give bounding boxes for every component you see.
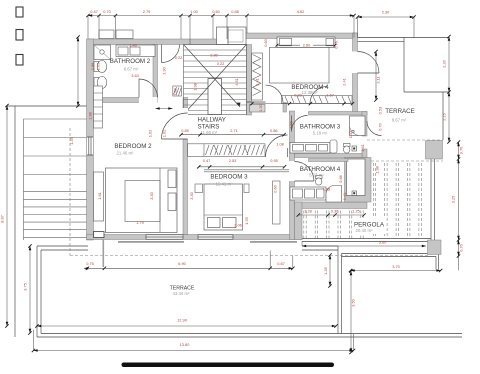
svg-text:BATHROOM 3: BATHROOM 3 <box>300 124 341 131</box>
label pergola halo <box>352 218 386 234</box>
lower terrace outer border <box>37 246 462 337</box>
svg-text:1.61: 1.61 <box>360 144 365 152</box>
svg-text:1.98: 1.98 <box>193 83 198 91</box>
dimension chain overhang 6.90 <box>84 251 295 271</box>
svg-text:6.67 m²: 6.67 m² <box>124 67 139 72</box>
dimension bedroom2 door width <box>156 107 173 110</box>
dashed roof overhang west <box>69 128 71 256</box>
wardrobe strip east of stairs <box>252 53 263 100</box>
svg-text:0.95: 0.95 <box>270 158 278 163</box>
wall bathroom2 south <box>94 98 158 103</box>
terrace NE step outline <box>358 38 450 141</box>
svg-text:1.08: 1.08 <box>323 187 331 192</box>
svg-text:1.99: 1.99 <box>90 63 95 71</box>
bathroom4 shower <box>326 186 342 203</box>
dashed roof overhang south <box>70 255 430 257</box>
lower terrace east border <box>302 246 342 334</box>
svg-text:0.88: 0.88 <box>338 175 343 183</box>
bedroom4 bed body <box>270 47 330 83</box>
svg-text:0.60: 0.60 <box>263 38 268 46</box>
svg-text:1.28: 1.28 <box>304 209 312 214</box>
svg-text:1.90: 1.90 <box>162 66 167 74</box>
svg-text:3.30: 3.30 <box>149 191 154 199</box>
dimension chain 3.60 <box>302 240 426 247</box>
svg-text:2.41: 2.41 <box>255 78 260 86</box>
svg-text:0.75: 0.75 <box>86 261 94 266</box>
svg-text:0.86: 0.86 <box>270 128 278 133</box>
door arc bedroom4 closet <box>310 87 327 104</box>
svg-text:1.02: 1.02 <box>148 130 153 138</box>
svg-text:0.70: 0.70 <box>103 9 111 14</box>
dimension arrowheads <box>34 349 38 352</box>
dimension chain corridor row2 <box>197 158 286 169</box>
legend rect 3 <box>16 55 23 66</box>
door bedroom2 <box>162 108 189 139</box>
bathroom4 spot <box>352 191 357 196</box>
svg-text:3.30: 3.30 <box>189 191 194 199</box>
dimension chain 1.35 <box>323 253 332 287</box>
bathroom3 spot <box>352 146 357 151</box>
window sill 2 <box>250 241 297 242</box>
svg-text:8.67 m²: 8.67 m² <box>392 118 407 123</box>
wall top bedroom4 <box>237 33 358 39</box>
wall bedroom2 east upper <box>183 98 188 109</box>
svg-text:15.41 m²: 15.41 m² <box>216 182 234 187</box>
dimension chain left 3.75 <box>23 244 32 334</box>
bathroom4 toilet <box>316 176 323 186</box>
left hatched lower-roof terrace <box>24 119 89 240</box>
planter boxes above bathroom 2 <box>99 30 133 39</box>
bathroom3 toilet <box>344 144 351 154</box>
pier at bedroom4 door jamb <box>283 103 287 113</box>
site line west <box>14 106 16 337</box>
svg-text:TERRACE: TERRACE <box>385 108 415 115</box>
svg-text:1.50: 1.50 <box>289 120 294 128</box>
wall step at x237 <box>237 33 242 45</box>
dimension left wall <box>76 35 79 107</box>
dimension chain bed3 top row <box>250 93 354 106</box>
svg-text:1.08: 1.08 <box>276 142 284 147</box>
svg-text:2.20: 2.20 <box>442 59 447 67</box>
svg-text:2.53: 2.53 <box>229 158 237 163</box>
svg-text:3.60: 3.60 <box>379 240 387 245</box>
wall bedroom4 south / bathroom3 north (right part) <box>309 112 368 116</box>
wall bathroom2 east <box>153 45 158 103</box>
svg-text:0.22: 0.22 <box>175 55 183 60</box>
bathroom2 basin counter <box>116 45 155 57</box>
stairs central landing <box>208 79 222 115</box>
svg-text:BEDROOM 2: BEDROOM 2 <box>114 143 152 150</box>
svg-text:0.60: 0.60 <box>273 184 278 192</box>
duct shaft white inset <box>347 159 366 196</box>
window south 2 <box>198 235 233 239</box>
svg-text:2.30: 2.30 <box>382 10 390 15</box>
svg-text:0.67: 0.67 <box>277 261 285 266</box>
wall bathroom4 south <box>295 202 368 209</box>
pergola slats south zone <box>304 211 363 239</box>
svg-text:1.30: 1.30 <box>258 103 263 111</box>
svg-text:1.79: 1.79 <box>136 220 144 225</box>
svg-text:4.51: 4.51 <box>234 78 239 86</box>
svg-text:0.22: 0.22 <box>217 61 225 66</box>
hallway cabinet <box>250 105 266 113</box>
bathroom3 shower <box>350 116 366 136</box>
svg-text:0.70: 0.70 <box>459 146 464 154</box>
svg-text:2.11: 2.11 <box>376 76 381 83</box>
svg-text:0.47: 0.47 <box>90 9 98 14</box>
pergola floor south edge <box>302 239 431 242</box>
wall corner inset SW <box>94 232 105 238</box>
wall stairwell east <box>247 45 252 116</box>
pillar A <box>426 141 443 160</box>
extension lines 13.80 <box>33 330 35 351</box>
svg-text:2.71: 2.71 <box>230 128 238 133</box>
wall bathroom4 east / duct mass <box>345 158 372 203</box>
svg-text:6.90: 6.90 <box>178 261 186 266</box>
svg-text:1.00: 1.00 <box>190 9 198 14</box>
bedroom3 north partition <box>204 170 290 172</box>
bedroom3 east wardrobe <box>273 181 281 224</box>
svg-text:1.02: 1.02 <box>162 130 167 138</box>
bedroom4 bed headboard <box>277 37 335 47</box>
bedroom3 door <box>266 135 288 157</box>
svg-text:1.88: 1.88 <box>173 88 178 96</box>
svg-text:BEDROOM 3: BEDROOM 3 <box>210 174 248 181</box>
pergola slats east zone <box>373 163 421 238</box>
svg-text:4.62: 4.62 <box>297 9 305 14</box>
svg-text:20.40 m²: 20.40 m² <box>356 228 374 233</box>
svg-text:2.80: 2.80 <box>210 53 218 58</box>
svg-text:8.87: 8.87 <box>0 215 5 223</box>
window sill 1 <box>118 241 184 242</box>
door terrace from bedroom4 <box>352 52 379 74</box>
bedroom4 low wardrobe row <box>282 96 353 104</box>
wall east bathrooms lower <box>362 149 367 158</box>
svg-text:43.34 m²: 43.34 m² <box>173 291 191 296</box>
bathroom4 vanity row <box>290 187 326 200</box>
svg-text:2.79: 2.79 <box>143 9 151 14</box>
svg-text:0.30: 0.30 <box>331 209 339 214</box>
bedroom2 bed <box>106 168 178 233</box>
svg-text:3.25: 3.25 <box>451 196 456 204</box>
svg-text:0.76: 0.76 <box>334 41 339 49</box>
svg-text:1.35: 1.35 <box>69 137 74 145</box>
window south 1 <box>146 235 183 239</box>
svg-text:3.70: 3.70 <box>392 264 400 269</box>
svg-text:1.05: 1.05 <box>96 63 101 71</box>
bathroom2 bidet <box>94 77 107 89</box>
svg-text:2.15: 2.15 <box>442 113 447 121</box>
svg-text:0.47: 0.47 <box>203 158 211 163</box>
svg-text:0.70: 0.70 <box>378 122 383 130</box>
dashed pergola north boundary <box>371 160 443 162</box>
legend rect 2 <box>16 30 23 41</box>
svg-text:0.53: 0.53 <box>378 107 383 115</box>
dimension chain 2.11 <box>374 50 380 102</box>
svg-text:12.38m²: 12.38m² <box>302 90 318 95</box>
svg-text:11.66 m²: 11.66 m² <box>201 130 218 135</box>
door top corridor <box>162 45 180 63</box>
site line north-west horizontal <box>7 105 88 107</box>
door terrace from bathroom3 <box>367 121 382 136</box>
svg-text:1.40: 1.40 <box>129 42 137 47</box>
dimension chain top 2.30 <box>356 10 416 38</box>
svg-text:1.41: 1.41 <box>342 193 347 201</box>
svg-text:1.43: 1.43 <box>348 131 353 139</box>
hallway wardrobe <box>188 144 266 157</box>
svg-text:3.63: 3.63 <box>131 73 139 78</box>
dimension chain hallway row <box>179 128 285 136</box>
wall spur extension SW <box>102 240 104 268</box>
svg-text:5.18 m²: 5.18 m² <box>313 131 328 136</box>
dashed terrace-pergola boundary <box>367 139 443 141</box>
svg-text:3.75: 3.75 <box>23 283 28 291</box>
dimension chain 3.70 <box>349 264 443 272</box>
bedroom4 south partition line <box>247 101 266 103</box>
bathroom3 vanity row <box>290 140 337 153</box>
dimension chain 3.50 <box>349 269 355 354</box>
svg-text:13.80: 13.80 <box>180 342 191 347</box>
chimney shaft <box>217 27 247 45</box>
door bathroom4 <box>289 161 314 181</box>
wall top main <box>88 39 237 45</box>
window west wall <box>87 137 93 155</box>
dimension chain right 3.25 <box>451 140 464 270</box>
dimension chain pergola row <box>297 209 366 217</box>
svg-text:0.60: 0.60 <box>212 9 220 14</box>
bedroom2 wardrobe west <box>94 86 103 128</box>
wall between bathroom3 and bathroom4 <box>295 154 363 158</box>
bathroom2 toilet <box>94 61 107 73</box>
svg-text:1.25: 1.25 <box>352 209 360 214</box>
svg-text:1.55: 1.55 <box>244 217 249 225</box>
svg-text:0.85: 0.85 <box>181 128 189 133</box>
radiator corridor <box>173 86 182 96</box>
wall east bathrooms upper <box>362 112 367 137</box>
pergola east border <box>431 159 435 240</box>
svg-text:21.46 m²: 21.46 m² <box>117 151 135 156</box>
svg-text:BATHROOM 2: BATHROOM 2 <box>110 58 151 65</box>
wall south main <box>87 235 303 240</box>
svg-text:1.35: 1.35 <box>323 267 328 275</box>
door bedroom4 <box>266 85 284 103</box>
wall west of bathrooms <box>290 111 295 240</box>
svg-text:1.67: 1.67 <box>326 93 334 98</box>
dim label 2.60 ticks <box>276 44 337 47</box>
svg-text:0.83: 0.83 <box>294 93 302 98</box>
bathroom2 shower <box>94 45 111 60</box>
dimension chain 12.90 <box>35 318 337 328</box>
step edge below pergola <box>342 254 439 270</box>
stairs direction diagonals <box>184 45 247 115</box>
door bathroom3 <box>292 116 308 132</box>
bedroom2 dresser west <box>94 172 104 221</box>
svg-text:2.41: 2.41 <box>342 78 347 86</box>
dimension chain top row1 <box>86 9 355 45</box>
wall bedroom2 east lower <box>183 139 188 235</box>
door bathroom2 <box>139 79 158 103</box>
dimension chain right 2.20 2.15 <box>442 35 451 144</box>
bedroom3 bed <box>195 184 249 230</box>
svg-text:2.60: 2.60 <box>303 42 311 47</box>
partition bathroom4 north <box>309 159 349 162</box>
dimension chain 13.80 <box>32 342 355 352</box>
scale bar <box>122 363 335 368</box>
svg-text:0.70: 0.70 <box>459 243 464 251</box>
svg-text:HALLWAY: HALLWAY <box>198 117 226 124</box>
svg-text:3.50: 3.50 <box>351 298 356 306</box>
wall east bedroom4 <box>353 33 358 113</box>
legend rect 1 <box>16 7 23 17</box>
svg-text:1.98: 1.98 <box>88 112 93 120</box>
svg-text:12.90: 12.90 <box>177 318 188 323</box>
svg-text:1.98: 1.98 <box>375 166 380 174</box>
dimension chain left 8.87 <box>0 104 9 328</box>
wall pergola west stub <box>295 202 303 240</box>
svg-text:5.23 m²: 5.23 m² <box>309 173 324 178</box>
svg-text:0.88: 0.88 <box>231 9 239 14</box>
wall west <box>87 39 94 240</box>
pillar B <box>428 240 442 255</box>
wall bedroom4 south / bathroom3 north (left stub) <box>290 112 293 116</box>
svg-text:1.61: 1.61 <box>97 192 102 200</box>
svg-text:2.06: 2.06 <box>234 223 242 228</box>
